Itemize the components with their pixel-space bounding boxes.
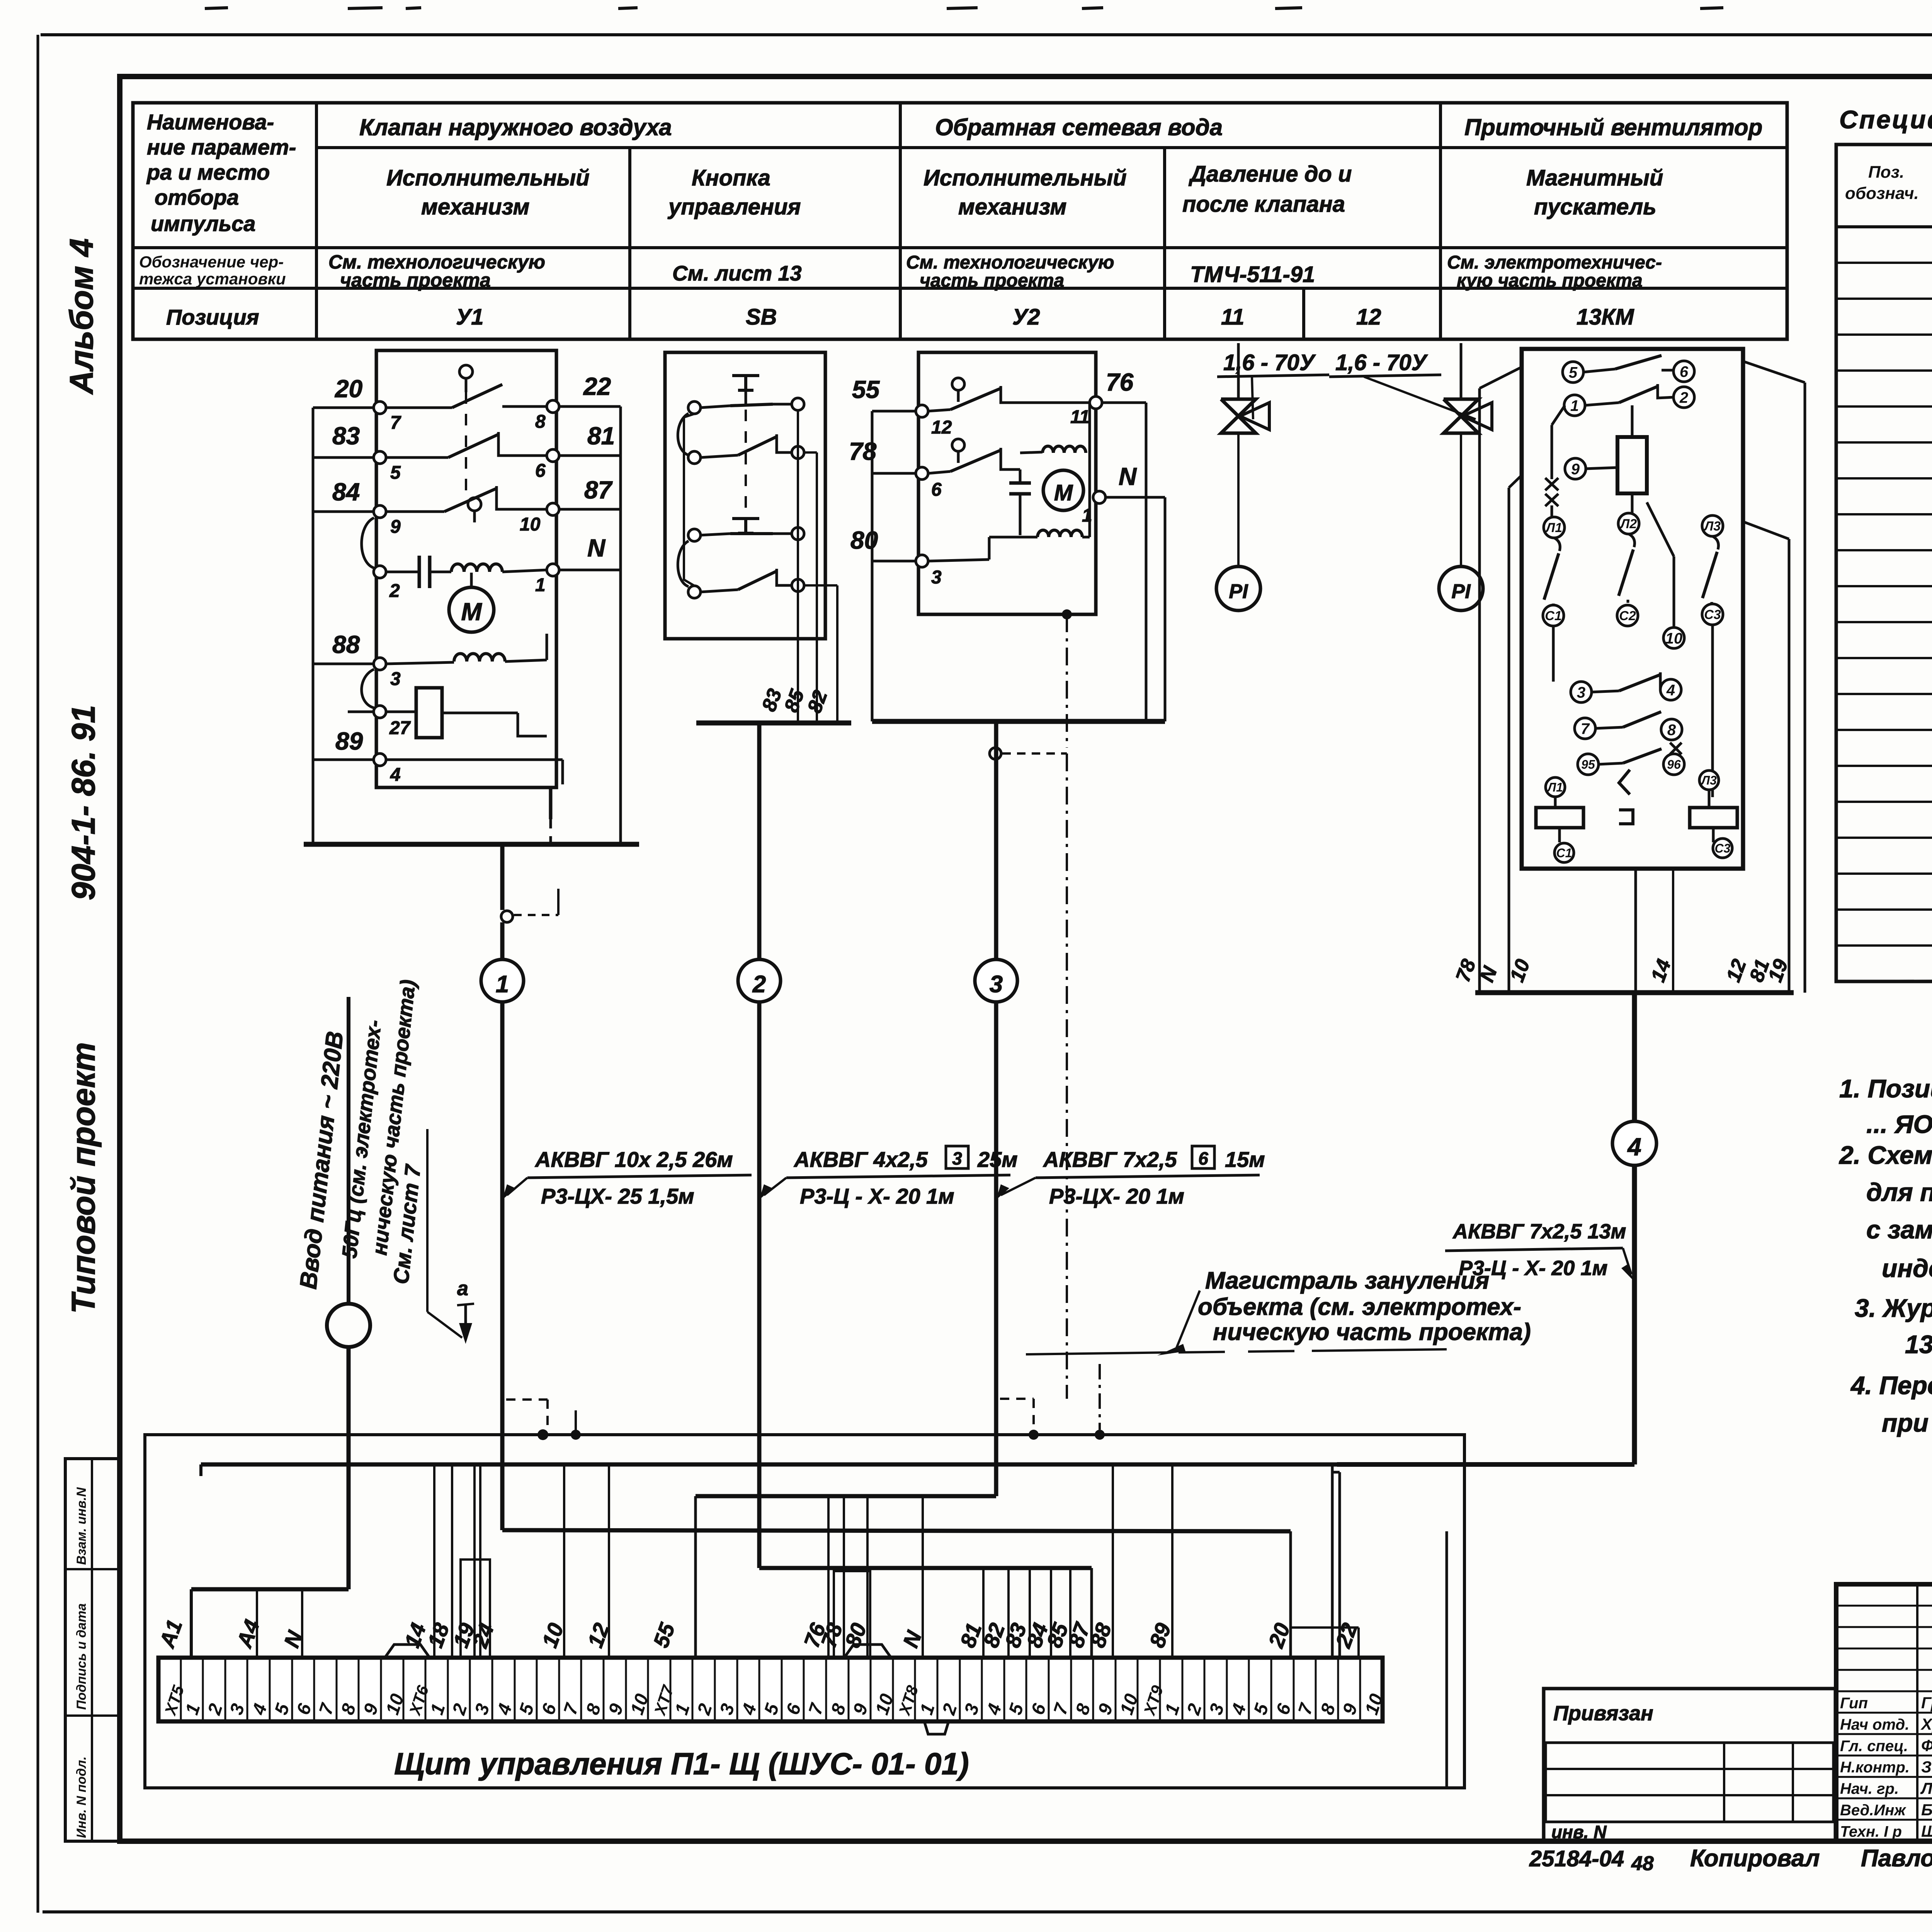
valve 1,6-70U #1 bbox=[1221, 399, 1256, 433]
panel wire N bbox=[301, 1589, 303, 1658]
block1 terminal 1 bbox=[547, 564, 559, 576]
collector y3872 from cable3 bbox=[696, 1494, 996, 1498]
block1 wire 87 bbox=[556, 508, 621, 511]
svg-text:Наименова-: Наименова- bbox=[147, 110, 274, 134]
page left border bbox=[37, 35, 39, 1913]
cable 2 number circle bbox=[738, 959, 781, 1002]
svg-text:после клапана: после клапана bbox=[1182, 192, 1345, 217]
cable 2 line bbox=[757, 723, 762, 1568]
cable3 dash jog bbox=[1000, 1398, 1034, 1400]
junction dots on panel top bbox=[537, 1429, 548, 1440]
svg-text:N: N bbox=[587, 534, 606, 562]
svg-text:Золотарева: Золотарева bbox=[1921, 1758, 1932, 1776]
strip hump XT6 bbox=[385, 1645, 430, 1658]
block1 coil L1 bbox=[451, 564, 502, 572]
block4 terminal 95 bbox=[1578, 754, 1599, 775]
block1 wire 88 bbox=[313, 663, 376, 665]
block3 wire 80 bbox=[872, 560, 918, 563]
left margin stamp table bbox=[65, 1459, 119, 1841]
svg-text:инв. N: инв. N bbox=[1551, 1822, 1607, 1842]
svg-text:Л2: Л2 bbox=[1619, 517, 1637, 531]
svg-text:См. электротехничес-: См. электротехничес- bbox=[1447, 252, 1662, 273]
block1 wire 84 bbox=[313, 510, 376, 513]
svg-text:АКВВГ 7х2,5 13м: АКВВГ 7х2,5 13м bbox=[1452, 1220, 1626, 1243]
panel box bbox=[145, 1435, 1464, 1788]
block4 device box bbox=[1522, 349, 1743, 869]
block1 wire 81 bbox=[556, 454, 621, 457]
svg-text:ра и место: ра и место bbox=[146, 160, 270, 184]
svg-text:часть проекта: часть проекта bbox=[340, 269, 491, 291]
block4 contact 5-6 bbox=[1583, 369, 1615, 372]
svg-text:Григорьян: Григорьян bbox=[1921, 1694, 1932, 1712]
svg-text:78: 78 bbox=[849, 437, 877, 465]
block1 contact 5-6 bbox=[386, 456, 448, 459]
block1 wire 20 bbox=[313, 406, 376, 409]
block4 contact 3-4 bbox=[1592, 691, 1619, 692]
block4 terminal 2 bbox=[1673, 387, 1694, 408]
svg-text:7: 7 bbox=[390, 413, 401, 433]
block1 left bus wire bbox=[312, 408, 315, 844]
svg-text:11: 11 bbox=[1070, 407, 1090, 427]
block4 wires mid bbox=[1552, 626, 1555, 682]
page bottom border bbox=[43, 1910, 1932, 1913]
svg-text:Альбом 4: Альбом 4 bbox=[63, 238, 100, 395]
block4 heater left bbox=[1536, 808, 1583, 828]
sm list 7 leader bbox=[426, 1129, 429, 1312]
panel wire 82 bbox=[1007, 1568, 1010, 1658]
block1 motor M bbox=[449, 587, 494, 632]
block3 actuator mid bbox=[952, 439, 964, 451]
spec table bottom arrow bbox=[1836, 979, 1932, 981]
block4 terminal C1b bbox=[1554, 843, 1574, 862]
svg-text:7: 7 bbox=[1581, 720, 1590, 737]
svg-text:13КМ: 13КМ bbox=[1577, 304, 1634, 330]
manometer PI 2 bbox=[1439, 566, 1483, 611]
block4 inner drop to bus bbox=[1634, 869, 1637, 993]
svg-text:8: 8 bbox=[1667, 721, 1676, 738]
block4 contact 95-96 bbox=[1599, 763, 1623, 764]
block2 button plunger top bbox=[732, 374, 759, 377]
panel wire 10 bbox=[563, 1464, 565, 1658]
block4 terminal 5 bbox=[1563, 362, 1583, 383]
svg-text:РI: РI bbox=[1451, 580, 1471, 603]
block1 contact 9-10 bbox=[386, 510, 444, 513]
block2 contact row2 bbox=[701, 455, 738, 457]
block4 terminal L1b bbox=[1546, 777, 1565, 797]
svg-text:часть проекта: часть проекта bbox=[920, 270, 1064, 291]
svg-text:9: 9 bbox=[390, 517, 401, 537]
svg-text:М: М bbox=[461, 598, 482, 626]
svg-text:С2: С2 bbox=[1619, 609, 1636, 623]
svg-text:76: 76 bbox=[1106, 368, 1134, 396]
block3 bottom dot bbox=[1062, 609, 1072, 619]
svg-text:Давление до и: Давление до и bbox=[1188, 162, 1352, 187]
block1 actuator circle top bbox=[459, 365, 473, 378]
svg-text:Магнитный: Магнитный bbox=[1526, 165, 1663, 190]
block1 box bottom to bus bbox=[549, 787, 553, 819]
svg-text:1: 1 bbox=[535, 575, 546, 595]
block3 capacitor bbox=[1019, 469, 1022, 483]
svg-text:АКВВГ 10х 2,5 26м: АКВВГ 10х 2,5 26м bbox=[534, 1147, 733, 1172]
block3 device box bbox=[918, 352, 1096, 614]
svg-text:Обратная сетевая вода: Обратная сетевая вода bbox=[935, 114, 1223, 140]
panel wire А4 bbox=[256, 1589, 258, 1658]
svg-text:Спецификация к схеме соединен: Спецификация к схеме соединений внешних … bbox=[1839, 105, 1932, 134]
svg-text:Щит управления П1- Щ: Щит управления П1- Щ (ШУС- 01- 01) bbox=[394, 1747, 969, 1781]
magistral slant stroke bbox=[1175, 1291, 1200, 1352]
block1 actuator circle mid bbox=[468, 498, 481, 511]
block3 wire N out bbox=[1105, 496, 1165, 499]
svg-text:С1: С1 bbox=[1556, 846, 1572, 860]
block3 right bus inner bbox=[1164, 497, 1167, 721]
svg-text:тежса установки: тежса установки bbox=[139, 270, 286, 288]
block4 contact 7-8 bbox=[1595, 727, 1623, 728]
svg-text:6: 6 bbox=[535, 461, 546, 481]
block1 device box bbox=[376, 350, 556, 787]
svg-text:15м: 15м bbox=[1225, 1147, 1265, 1172]
block2 contact row4 bbox=[701, 590, 738, 592]
svg-text:ТМЧ-511-91: ТМЧ-511-91 bbox=[1190, 262, 1315, 287]
block3 terminal 6 bbox=[916, 467, 928, 480]
block3 terminal 3 bbox=[916, 555, 928, 567]
block1 wire 83 bbox=[313, 456, 376, 459]
svg-text:Шранко: Шранко bbox=[1921, 1822, 1932, 1840]
block4 terminal 1 bbox=[1564, 395, 1585, 416]
panel wire 89 bbox=[1171, 1464, 1173, 1658]
svg-text:Бутенко: Бутенко bbox=[1921, 1801, 1932, 1819]
block4 contacts C1 C2 C3 bbox=[1543, 605, 1564, 626]
block1 terminal 4 bbox=[374, 753, 386, 766]
block4 terminal 9 bbox=[1565, 458, 1586, 479]
svg-text:SВ: SВ bbox=[746, 304, 777, 330]
svg-text:1. Позиции приборов указаны: 1. Позиции приборов указаны по специфика… bbox=[1839, 1074, 1932, 1103]
svg-text:12: 12 bbox=[1356, 304, 1381, 330]
block2 drop to bus bbox=[797, 692, 799, 723]
svg-text:48: 48 bbox=[1631, 1852, 1654, 1875]
block1 terminal 2 bbox=[374, 566, 386, 578]
svg-text:РI: РI bbox=[1229, 580, 1248, 603]
block4 terminal 96 bbox=[1663, 754, 1684, 775]
panel collector thick y3790 bbox=[201, 1463, 1634, 1467]
block4 terminal 4 bbox=[1660, 679, 1681, 700]
svg-text:Нач. гр.: Нач. гр. bbox=[1840, 1781, 1899, 1798]
svg-text:АКВВГ 4х2,5: АКВВГ 4х2,5 bbox=[793, 1147, 928, 1172]
privyazan grid bbox=[1546, 1743, 1833, 1822]
magistral dashdot drop bbox=[1099, 1364, 1101, 1430]
block4 demontage X marks bbox=[1545, 478, 1558, 490]
svg-text:Н.контр.: Н.контр. bbox=[1840, 1759, 1910, 1776]
block4 terminal C3b bbox=[1713, 838, 1732, 858]
svg-text:5: 5 bbox=[390, 463, 401, 483]
svg-text:Р3-Ц - Х- 20 1м: Р3-Ц - Х- 20 1м bbox=[800, 1184, 954, 1208]
svg-text:механизм: механизм bbox=[421, 194, 529, 219]
svg-text:10: 10 bbox=[1665, 630, 1683, 647]
svg-text:83: 83 bbox=[332, 422, 360, 450]
svg-text:Христофоров: Христофоров bbox=[1920, 1715, 1932, 1733]
panel wire 22 bbox=[1357, 1628, 1360, 1658]
block3 contact 12-11 bbox=[928, 410, 951, 411]
block4 outer right risers bbox=[1743, 361, 1805, 383]
strip hump XT8 bbox=[844, 1645, 891, 1658]
svg-text:С1: С1 bbox=[1545, 609, 1561, 623]
cable sheath box 19-24 bbox=[461, 1560, 490, 1658]
inner panel drop x3744 bbox=[1446, 1531, 1448, 1788]
block1 coil L2 bbox=[454, 654, 505, 662]
svg-text:6: 6 bbox=[931, 480, 942, 500]
block1 right bus wire bbox=[619, 406, 622, 844]
svg-text:4. Перемычки обозначенные: 4. Перемычки обозначенные bbox=[1850, 1371, 1932, 1400]
svg-text:12: 12 bbox=[931, 417, 952, 438]
svg-text:Л1: Л1 bbox=[1547, 781, 1563, 794]
block4 terminal 6 bbox=[1673, 361, 1694, 382]
svg-text:Исполнительный: Исполнительный bbox=[386, 165, 590, 190]
block3 coil top bbox=[1043, 446, 1086, 453]
svg-text:Обозначение чер-: Обозначение чер- bbox=[139, 253, 284, 271]
block4 heater right bbox=[1690, 808, 1737, 828]
svg-text:25184-04: 25184-04 bbox=[1529, 1846, 1624, 1871]
svg-text:Фукс: Фукс bbox=[1921, 1736, 1932, 1755]
block3 motor M bbox=[1043, 470, 1083, 510]
svg-text:55: 55 bbox=[852, 376, 880, 403]
svg-text:Любимова: Любимова bbox=[1920, 1779, 1932, 1798]
svg-text:95: 95 bbox=[1581, 758, 1595, 772]
panel wire 22 bridge bbox=[1291, 1626, 1359, 1629]
block4 aux contacts L1 L2 L3 bbox=[1544, 517, 1565, 538]
svg-text:2: 2 bbox=[389, 581, 400, 601]
svg-text:87: 87 bbox=[584, 476, 613, 504]
block1 terminal 9 bbox=[374, 505, 386, 518]
block1 terminal 8 bbox=[547, 400, 559, 413]
svg-text:6: 6 bbox=[1198, 1148, 1208, 1168]
svg-text:ние парамет-: ние парамет- bbox=[147, 135, 296, 159]
svg-text:89: 89 bbox=[335, 727, 363, 755]
svg-text:3. Журнал кабельных пров: 3. Журнал кабельных проводок - листы bbox=[1855, 1294, 1932, 1322]
block1 wire row 4 bbox=[386, 759, 563, 761]
cable1 dash jog bbox=[506, 1398, 548, 1401]
block4 outer left risers bbox=[1480, 367, 1522, 388]
collector y3970 from cable1 bbox=[502, 1530, 1291, 1531]
block1 terminal 5 bbox=[374, 451, 386, 464]
block4 contact drops bbox=[1554, 538, 1560, 551]
svg-text:3: 3 bbox=[1577, 684, 1585, 701]
block4 shield bus bbox=[1475, 990, 1794, 995]
svg-text:Типовой проект: Типовой проект bbox=[65, 1042, 102, 1314]
svg-text:Гл. спец.: Гл. спец. bbox=[1840, 1738, 1908, 1755]
svg-text:10: 10 bbox=[520, 514, 541, 535]
svg-text:отбора: отбора bbox=[155, 185, 239, 209]
block3 actuator top bbox=[952, 378, 964, 390]
block2 shield bus bbox=[696, 721, 851, 726]
svg-text:механизм: механизм bbox=[958, 194, 1066, 219]
block2 inner link left bbox=[684, 414, 694, 586]
svg-text:Нач отд.: Нач отд. bbox=[1840, 1716, 1909, 1733]
power feed upper line bbox=[347, 997, 350, 1304]
block3 wire 55 bbox=[872, 410, 918, 413]
block3 terminal 12 bbox=[916, 405, 928, 417]
svg-text:Л3: Л3 bbox=[1701, 774, 1717, 787]
svg-text:4: 4 bbox=[1666, 682, 1675, 699]
svg-text:С3: С3 bbox=[1715, 842, 1731, 855]
panel wire 84 bbox=[1050, 1568, 1052, 1658]
block1 mech link dashed bbox=[465, 392, 467, 498]
svg-text:96: 96 bbox=[1667, 758, 1681, 772]
svg-text:11: 11 bbox=[1221, 304, 1244, 330]
svg-text:с заменой в маркировке ап: с заменой в маркировке аппаратов bbox=[1866, 1215, 1932, 1244]
svg-text:1,6 - 70У: 1,6 - 70У bbox=[1223, 350, 1316, 375]
block1 terminal 27 bbox=[348, 711, 376, 713]
svg-text:80: 80 bbox=[850, 526, 878, 554]
block2 left terminals bbox=[688, 401, 701, 414]
block3 terminal 1 bbox=[1093, 491, 1105, 503]
title block frame bbox=[1836, 1584, 1932, 1841]
block2 bracket left top bbox=[678, 413, 689, 455]
svg-text:4: 4 bbox=[390, 765, 401, 785]
power line down bbox=[347, 1347, 351, 1589]
svg-text:2: 2 bbox=[752, 971, 766, 998]
panel wire 24 bbox=[479, 1464, 481, 1658]
node a line with arrow bbox=[457, 1304, 474, 1305]
panel wire 85 bbox=[1069, 1568, 1071, 1658]
block1 terminal 10 bbox=[547, 503, 559, 515]
svg-text:Кнопка: Кнопка bbox=[692, 165, 770, 190]
block4 terminal 8 bbox=[1661, 719, 1682, 740]
panel wire 83 bbox=[1029, 1568, 1031, 1658]
block2 button plunger bottom bbox=[732, 517, 759, 520]
svg-text:ническую часть проекта): ническую часть проекта) bbox=[1213, 1319, 1531, 1345]
parameters table grid bbox=[133, 103, 1787, 339]
svg-text:Л3: Л3 bbox=[1703, 519, 1721, 534]
svg-text:для приточной установки П2: для приточной установки П2 схема аналоги… bbox=[1866, 1178, 1932, 1206]
svg-text:У1: У1 bbox=[456, 304, 484, 330]
cable sheath box 78-80 bbox=[834, 1571, 870, 1658]
svg-text:объекта (см. электротех-: объекта (см. электротех- bbox=[1198, 1294, 1521, 1320]
svg-text:Техн. I р: Техн. I р bbox=[1840, 1823, 1902, 1840]
svg-text:3: 3 bbox=[990, 971, 1003, 998]
pressure branch 1 stem bbox=[1237, 343, 1240, 399]
power run to XT5 bbox=[191, 1587, 349, 1592]
block2 mech dashed bbox=[745, 410, 747, 518]
block3 contact 6 bbox=[928, 471, 951, 473]
panel wire 88 bbox=[1112, 1464, 1114, 1658]
panel wire N bbox=[922, 1496, 924, 1658]
panel wire 80 bbox=[866, 1496, 869, 1658]
svg-text:1,6 - 70У: 1,6 - 70У bbox=[1335, 350, 1428, 375]
svg-text:81: 81 bbox=[587, 422, 615, 450]
block4 terminal 10 bbox=[1663, 628, 1684, 648]
svg-text:8: 8 bbox=[535, 412, 546, 432]
cable4 run left bbox=[1337, 1462, 1634, 1467]
block4 contact 1-2 bbox=[1585, 403, 1619, 405]
block2 contact row1 bbox=[701, 406, 730, 408]
block3 shield bus bbox=[872, 719, 1165, 724]
block1 terminal 7 bbox=[374, 401, 386, 414]
cable 4 number circle bbox=[1612, 1121, 1656, 1165]
panel wire 76 bbox=[827, 1496, 830, 1658]
block4 X mark 8 bbox=[1670, 743, 1682, 754]
panel wire 14 bbox=[433, 1464, 435, 1658]
cable 3 number circle bbox=[975, 959, 1017, 1002]
block3 coil bottom bbox=[1037, 530, 1082, 537]
svg-text:N: N bbox=[1119, 463, 1137, 490]
spec table grid bbox=[1836, 145, 1932, 981]
block3 left bus bbox=[871, 411, 874, 721]
block1 relay K bbox=[416, 688, 442, 738]
strip hump below XT8 bbox=[924, 1721, 949, 1734]
block2 right terminals bbox=[792, 398, 804, 410]
svg-text:Копировал: Копировал bbox=[1690, 1845, 1820, 1872]
svg-text:13, 14: 13, 14 bbox=[1905, 1330, 1932, 1359]
svg-text:Поз.: Поз. bbox=[1868, 163, 1904, 182]
block1 terminal 3 bbox=[374, 658, 386, 670]
page top border bbox=[41, 33, 1932, 36]
svg-text:Позиция: Позиция bbox=[166, 305, 259, 329]
block1 contact 7-8 bbox=[386, 406, 452, 409]
svg-text:М: М bbox=[1054, 480, 1073, 505]
svg-text:Р3-ЦХ- 20 1м: Р3-ЦХ- 20 1м bbox=[1049, 1184, 1184, 1208]
svg-text:Л1: Л1 bbox=[1545, 520, 1562, 535]
svg-text:22: 22 bbox=[583, 372, 611, 400]
svg-text:У2: У2 bbox=[1012, 304, 1040, 330]
block1 capacitor C bbox=[386, 571, 419, 573]
svg-text:1: 1 bbox=[1570, 397, 1579, 414]
pressure branch 1 tube bbox=[1237, 433, 1240, 567]
svg-text:27: 27 bbox=[389, 718, 411, 738]
cable 1 line bbox=[500, 922, 505, 1530]
svg-text:Инв. N подл.: Инв. N подл. bbox=[74, 1756, 89, 1838]
svg-text:Приточный вентилятор: Приточный вентилятор bbox=[1464, 114, 1762, 140]
block3 wire 78 bbox=[872, 472, 918, 475]
manometer PI 1 bbox=[1216, 566, 1260, 611]
svg-text:... ЯОВ, С01.: ... ЯОВ, С01. bbox=[1866, 1110, 1932, 1138]
svg-text:при монтаже: при монтаже bbox=[1882, 1408, 1932, 1437]
cable4 double drop bbox=[1331, 1464, 1334, 1658]
svg-text:4: 4 bbox=[1627, 1133, 1641, 1161]
block1 wire N bbox=[556, 569, 621, 571]
svg-text:904-1- 86. 91: 904-1- 86. 91 bbox=[65, 705, 102, 900]
block3 inner right wire bbox=[1088, 403, 1091, 537]
svg-text:См. лист 13: См. лист 13 bbox=[672, 261, 802, 285]
svg-text:Подпись и дата: Подпись и дата bbox=[74, 1603, 89, 1710]
magistral leader arrow bbox=[1157, 1344, 1185, 1355]
block1 dashed stub bbox=[549, 819, 552, 844]
block3 dashdot down bbox=[1066, 614, 1068, 748]
block1 bracket 9-2 bbox=[362, 518, 374, 568]
block2 bracket left bottom bbox=[678, 541, 689, 587]
valve 1,6-70U #2 bbox=[1444, 399, 1478, 433]
svg-text:Привязан: Привязан bbox=[1553, 1702, 1653, 1725]
block4 thermal hook bbox=[1619, 770, 1633, 824]
block1 bracket 3-27 bbox=[362, 669, 374, 708]
svg-text:пускатель: пускатель bbox=[1534, 194, 1656, 219]
svg-text:Взам. инв.N: Взам. инв.N bbox=[74, 1487, 89, 1565]
panel wire 19 bbox=[473, 1464, 476, 1658]
svg-text:3: 3 bbox=[931, 567, 942, 588]
block4 terminal L3b bbox=[1699, 770, 1719, 790]
block2 right drop wires bbox=[797, 410, 799, 639]
block1 shield circle bbox=[501, 911, 513, 922]
svg-text:а: а bbox=[457, 1277, 468, 1300]
svg-text:84: 84 bbox=[332, 478, 360, 506]
svg-text:20: 20 bbox=[335, 375, 362, 403]
svg-text:обознач.: обознач. bbox=[1845, 184, 1919, 203]
panel wire 18 bbox=[451, 1464, 453, 1658]
svg-text:Вед.Инж: Вед.Инж bbox=[1840, 1802, 1906, 1819]
svg-text:управления: управления bbox=[667, 194, 801, 219]
cable 3 line bbox=[994, 721, 998, 1496]
power entry circle bbox=[327, 1304, 370, 1347]
svg-text:88: 88 bbox=[332, 631, 360, 658]
block2 device box bbox=[665, 352, 825, 639]
